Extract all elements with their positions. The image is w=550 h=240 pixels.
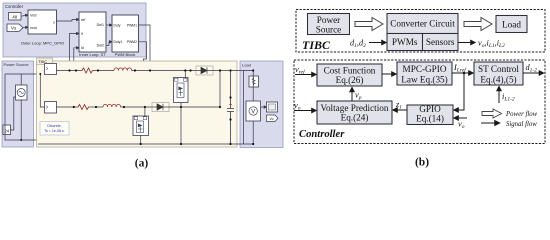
svg-text:vo: vo — [294, 101, 301, 112]
goto tag Vo2 — [267, 115, 279, 122]
block PWMs — [387, 34, 423, 51]
svg-text:Eq.(24): Eq.(24) — [341, 113, 369, 123]
svg-text:Source: Source — [316, 24, 342, 34]
svg-text:Ts = 1e-06 s.: Ts = 1e-06 s. — [44, 129, 65, 133]
resistor R2 — [76, 105, 91, 110]
capacitor C — [227, 71, 234, 145]
middle rail wire — [57, 106, 77, 108]
svg-text:vo: vo — [458, 120, 465, 131]
block sensors — [423, 34, 459, 51]
svg-text:(b): (b) — [415, 157, 429, 169]
arrow GPIO to voltage prediction z1 — [393, 100, 407, 111]
svg-text:o: o — [53, 20, 55, 24]
svg-text:id: id — [81, 46, 84, 50]
svg-text:d1-2: d1-2 — [526, 63, 538, 74]
wire inner Del1 to pwm — [106, 24, 112, 26]
power source region — [2, 61, 34, 147]
wires load column — [244, 71, 254, 145]
wire pwm2 down to mosfet M2 — [136, 42, 146, 116]
svg-text:vo,iL1,iL2: vo,iL1,iL2 — [478, 39, 505, 50]
dc source V1 — [16, 85, 28, 100]
junction nodes — [68, 69, 231, 145]
svg-text:Voltage Prediction: Voltage Prediction — [321, 103, 389, 113]
arrow sensors out + label vo iL1 iL2 — [458, 39, 505, 50]
svg-text:Outer Loop: MPC_GPIO: Outer Loop: MPC_GPIO — [21, 41, 64, 46]
svg-text:Vo: Vo — [11, 26, 17, 31]
wire branch down to GPIO — [454, 73, 464, 110]
TIBC dashed box — [296, 10, 545, 53]
svg-text:48: 48 — [12, 14, 17, 19]
svg-text:Law Eq.(35): Law Eq.(35) — [401, 74, 447, 84]
svg-text:PWMs: PWMs — [392, 37, 418, 47]
mosfet M1 — [174, 78, 189, 103]
svg-text:MPC-GPIO: MPC-GPIO — [403, 64, 447, 74]
wire tag to outer loop — [23, 26, 28, 28]
svg-text:PWM1: PWM1 — [127, 23, 137, 27]
svg-text:Power Source: Power Source — [4, 62, 30, 67]
input vo to GPIO — [454, 118, 467, 130]
op block outer loop MPC_GPIO — [21, 10, 64, 46]
wire const24 to source input — [11, 97, 16, 130]
discrete annotation — [40, 122, 69, 136]
block ST control — [474, 62, 523, 85]
load region — [240, 61, 283, 148]
svg-text:Eq.(14): Eq.(14) — [416, 114, 444, 124]
diode D1 — [196, 66, 213, 75]
wire — [121, 106, 152, 108]
svg-text:iL1-2: iL1-2 — [502, 92, 515, 103]
wire M1 drain to top rail — [184, 71, 186, 79]
wire M2 source to bottom rail — [140, 136, 142, 145]
wire source bottom pin — [20, 100, 22, 140]
constant block 48 — [9, 13, 22, 21]
wire M1 source down to bottom rail — [180, 103, 182, 145]
svg-text:Duty: Duty — [114, 23, 121, 27]
resistor R1 — [80, 68, 95, 73]
svg-text:Converter Circuit: Converter Circuit — [390, 19, 455, 29]
legend signal flow — [481, 121, 537, 128]
wire top rail right — [213, 70, 238, 72]
top rail wire — [57, 70, 81, 72]
wire sensor iL1 up to inner loop — [70, 34, 80, 71]
wire pwm1 down to mosfet M1 — [139, 25, 177, 78]
svg-text:Power flow: Power flow — [505, 111, 538, 118]
wire M2 drain to middle rail — [144, 107, 146, 117]
ST output d1-2 — [523, 63, 544, 74]
svg-text:Inner Loop: ST: Inner Loop: ST — [79, 52, 106, 57]
scope block — [267, 102, 278, 112]
power flow arrow 2 — [464, 18, 492, 31]
svg-text:vp: vp — [355, 91, 362, 102]
input iL1-2 up to ST — [499, 87, 515, 104]
block load — [496, 16, 527, 33]
svg-text:vref: vref — [295, 65, 306, 76]
svg-text:Controller: Controller — [5, 4, 24, 9]
arrow cost function to MPC — [382, 73, 396, 75]
wire outer to inner — [57, 20, 80, 22]
measurement block A — [45, 64, 57, 75]
measurement block B — [45, 102, 57, 114]
mosfet M2 — [133, 116, 149, 136]
svg-text:PWM2: PWM2 — [127, 40, 137, 44]
svg-text:ILref: ILref — [453, 63, 467, 74]
svg-text:d1,d2: d1,d2 — [350, 39, 366, 50]
svg-text:PWM Block: PWM Block — [115, 52, 136, 57]
svg-text:Discrete,: Discrete, — [47, 124, 61, 128]
wire source left loop — [5, 74, 38, 144]
block voltage prediction — [317, 101, 392, 124]
TIBC region — [37, 58, 238, 147]
arrow MPC to ST with ILref — [452, 63, 473, 74]
inductor L1 — [114, 68, 132, 71]
svg-text:Duty1: Duty1 — [114, 40, 123, 44]
svg-text:Load: Load — [242, 63, 251, 68]
svg-text:Vo: Vo — [270, 117, 274, 121]
svg-text:vout: vout — [30, 26, 37, 30]
label d1,d2 and arrow into PWMs — [350, 39, 386, 50]
block MPC-GPIO — [397, 62, 452, 85]
svg-text:Load: Load — [502, 19, 521, 29]
wire — [91, 106, 104, 108]
svg-text:(a): (a) — [135, 158, 149, 170]
wire inner Del2 to pwm — [106, 42, 112, 46]
block PWM — [112, 15, 139, 57]
from tag Vo — [7, 24, 23, 32]
inductor L2 — [103, 104, 121, 107]
svg-text:Del1: Del1 — [97, 23, 104, 27]
wire — [132, 70, 196, 72]
svg-text:Del2: Del2 — [97, 44, 104, 48]
controller region — [3, 3, 146, 57]
svg-text:Controller: Controller — [299, 129, 345, 140]
voltage measurement block — [246, 101, 261, 121]
wire vm to scope — [261, 106, 267, 108]
wire middle rail right to output node — [169, 71, 220, 108]
legend power flow — [482, 109, 538, 118]
svg-text:Vref: Vref — [30, 14, 36, 18]
svg-text:z1: z1 — [395, 100, 402, 111]
svg-text:ref: ref — [81, 18, 85, 22]
block cost function — [317, 64, 382, 86]
arrow vp up to cost function — [352, 88, 362, 102]
block GPIO — [407, 104, 453, 125]
svg-text:if: if — [81, 32, 83, 36]
block converter circuit — [387, 14, 458, 34]
diode D2 — [152, 103, 169, 112]
load resistor block — [249, 76, 259, 87]
block power source — [308, 14, 350, 35]
wire const to outer loop — [21, 15, 28, 16]
input vo to voltage prediction — [294, 101, 316, 112]
controller dashed box — [294, 60, 545, 144]
input vref — [295, 65, 316, 76]
wire source top to TIBC — [5, 71, 45, 86]
block inner loop ST — [79, 12, 106, 57]
bottom rail wire — [38, 143, 238, 145]
svg-text:Eq.(26): Eq.(26) — [336, 75, 364, 85]
svg-text:TIBC: TIBC — [302, 38, 331, 52]
wire — [95, 70, 115, 72]
svg-text:ST Control: ST Control — [478, 64, 519, 74]
svg-text:Sensors: Sensors — [426, 37, 455, 47]
wire into load — [238, 71, 244, 145]
svg-text:Eq.(4),(5): Eq.(4),(5) — [480, 74, 516, 84]
wire source split to block B — [40, 74, 44, 107]
svg-text:Cost Function: Cost Function — [324, 66, 376, 76]
power flow arrow 1 — [355, 18, 383, 31]
svg-text:GPIO: GPIO — [419, 104, 441, 114]
wire sensor iL2 up to inner loop — [74, 48, 79, 107]
constant 24 — [3, 125, 11, 135]
svg-text:Signal flow: Signal flow — [506, 121, 537, 128]
